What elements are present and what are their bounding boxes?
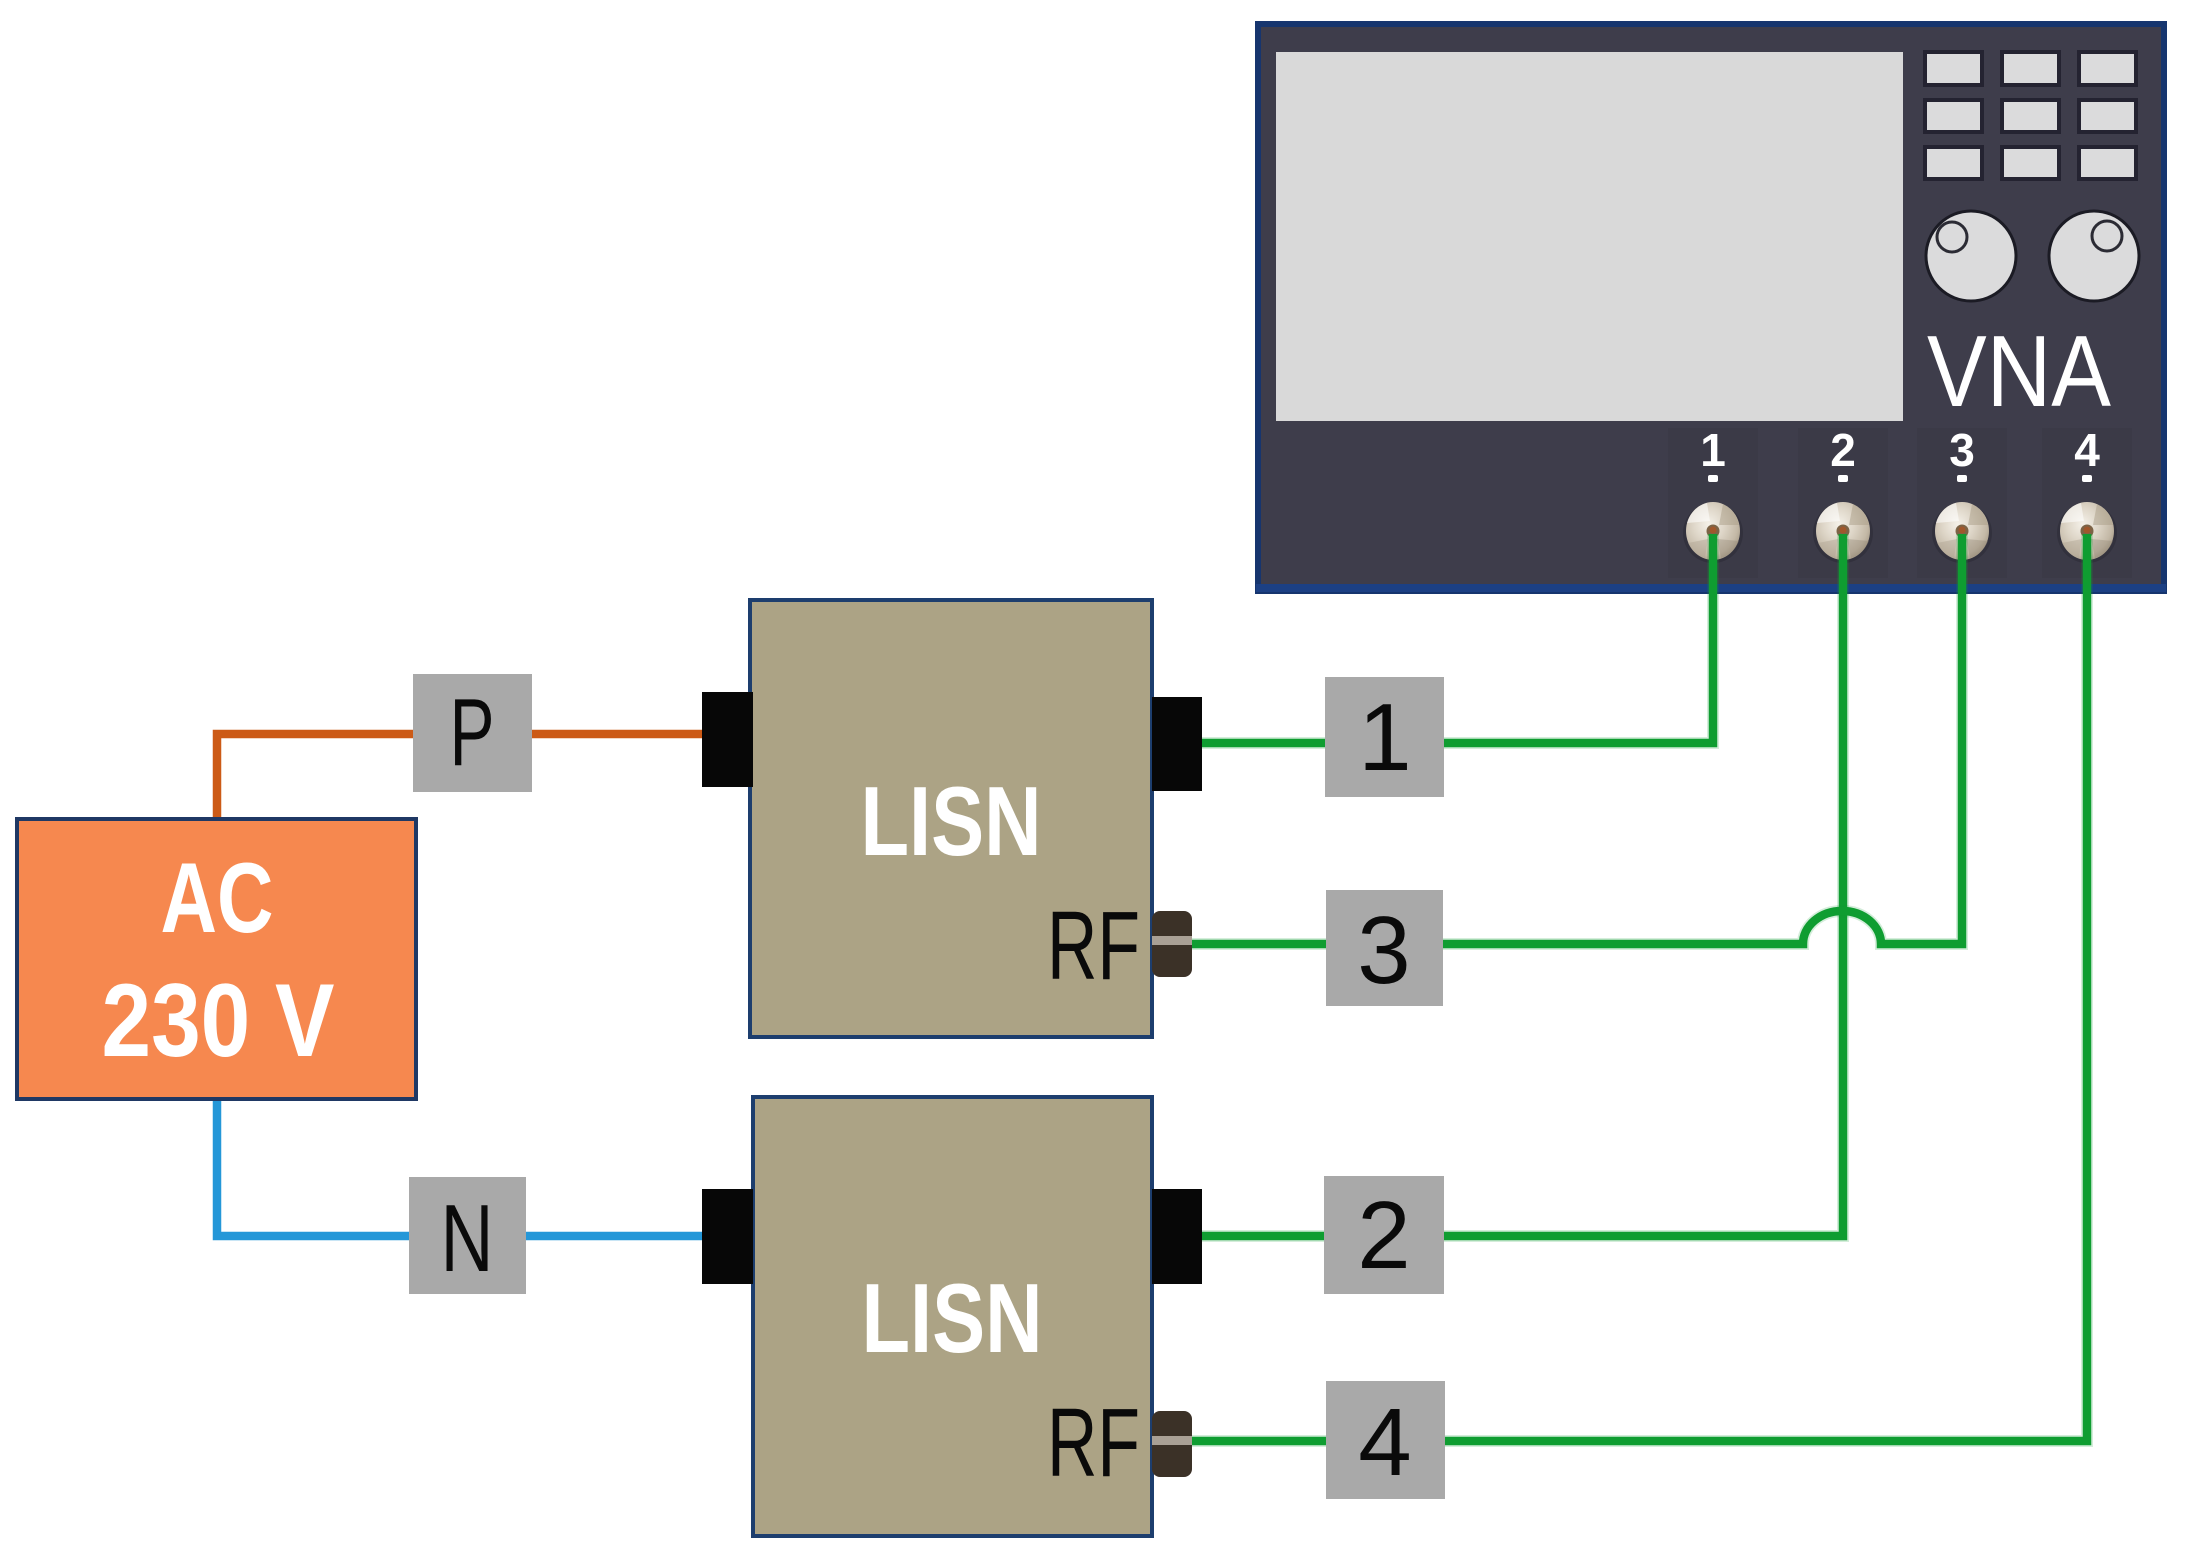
port 3 alignment dot [1957,475,1967,482]
wire 2 (LISN2 out to VNA port 2) [1192,534,1843,1236]
svg-text:P: P [450,679,495,786]
wire 4 (LISN2 RF to VNA port 4) [1180,534,2087,1441]
svg-text:3: 3 [1949,424,1975,476]
LISN 1 input connector (black) [702,692,753,787]
wire N (AC neutral to LISN2) [217,1099,702,1236]
LISN 1 RF connector nub [1152,911,1192,977]
svg-text:N: N [441,1185,494,1292]
port 2 connector [1813,502,1873,563]
svg-text:VNA: VNA [1927,316,2112,428]
label 3 [1326,890,1443,1006]
svg-text:4: 4 [2074,424,2100,476]
port 4 number label [2074,424,2100,476]
port 1 number label [1700,424,1726,476]
label 4 [1326,1381,1445,1499]
LISN 2 input connector (black) [702,1189,753,1284]
wire P (AC phase to LISN1) [217,734,702,819]
label P [413,674,532,792]
port 4 alignment dot [2082,475,2092,482]
svg-text:AC: AC [161,842,274,953]
LISN 2 RF connector nub [1152,1411,1192,1477]
svg-text:RF: RF [1047,891,1140,1000]
VNA knob right [2049,211,2139,301]
VNA knob left [1926,211,2016,301]
port 2 alignment dot [1838,475,1848,482]
AC 230 V source box [17,819,416,1099]
wire 3 (LISN1 RF to VNA port 3, hops over wire 2) [1180,534,1962,944]
VNA keypad buttons (3x3) [1925,52,2136,179]
label 1 [1325,677,1444,797]
LISN 2 box [753,1097,1152,1536]
LISN 1 RF label [1047,891,1140,1000]
port panel shading [1668,428,2132,578]
VNA instrument body [1256,24,2166,592]
port 4 connector [2057,502,2117,563]
port 1 connector [1683,502,1743,563]
port 3 connector [1932,502,1992,563]
svg-text:2: 2 [1830,424,1856,476]
port 3 number label [1949,424,1975,476]
svg-text:2: 2 [1357,1182,1410,1289]
LISN 2 RF label [1047,1388,1140,1497]
LISN 2 output connector (black) [1152,1189,1202,1284]
label 2 [1324,1176,1444,1294]
LISN 1 output connector (black) [1152,697,1202,791]
svg-text:230 V: 230 V [102,963,335,1079]
svg-text:RF: RF [1047,1388,1140,1497]
VNA screen [1276,52,1903,421]
svg-text:LISN: LISN [861,766,1042,876]
port 1 alignment dot [1708,475,1718,482]
LISN 1 box [750,600,1152,1037]
wire 1 (LISN1 out to VNA port 1) [1192,534,1713,743]
svg-text:4: 4 [1358,1389,1411,1496]
VNA label text [1927,316,2112,428]
port 2 number label [1830,424,1856,476]
svg-text:3: 3 [1357,897,1410,1004]
svg-text:LISN: LISN [862,1263,1043,1373]
svg-text:1: 1 [1700,424,1726,476]
svg-text:1: 1 [1358,684,1411,791]
label N [409,1177,526,1294]
